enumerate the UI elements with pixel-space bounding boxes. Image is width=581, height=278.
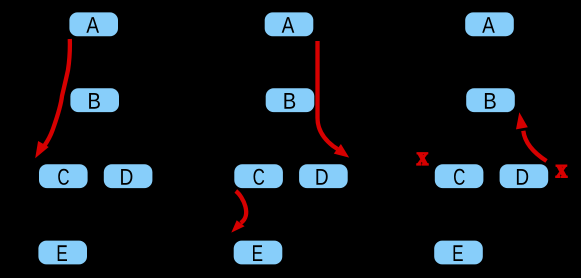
node C3: rounded box with letter C <box>435 164 484 188</box>
red x mark left of C3 <box>417 153 428 165</box>
node C1: rounded box with letter C <box>39 164 88 188</box>
red arrow from A2 down then bending right to D2 <box>318 41 350 158</box>
node A3: rounded box with letter A <box>465 12 514 36</box>
node E1: rounded box with letter E <box>38 241 87 265</box>
node D2: rounded box with letter D <box>299 164 348 188</box>
red curved arrow from A1 down-left to C1 <box>35 39 70 158</box>
node D1: rounded box with letter D <box>104 164 153 188</box>
node E2: rounded box with letter E <box>234 241 283 265</box>
red small arrow from C2 bulging right down to E2 <box>231 191 246 233</box>
red x mark right of D3 <box>556 165 567 177</box>
node A2: rounded box with letter A <box>265 12 314 36</box>
node A1: rounded box with letter A <box>69 12 118 36</box>
node D3: rounded box with letter D <box>500 164 549 188</box>
node E3: rounded box with letter E <box>434 241 483 265</box>
red curved arrow from D3 up to B3 <box>516 112 547 161</box>
node B1: rounded box with letter B <box>70 88 119 112</box>
node C2: rounded box with letter C <box>234 164 283 188</box>
node B3: rounded box with letter B <box>466 88 515 112</box>
node B2: rounded box with letter B <box>266 88 315 112</box>
